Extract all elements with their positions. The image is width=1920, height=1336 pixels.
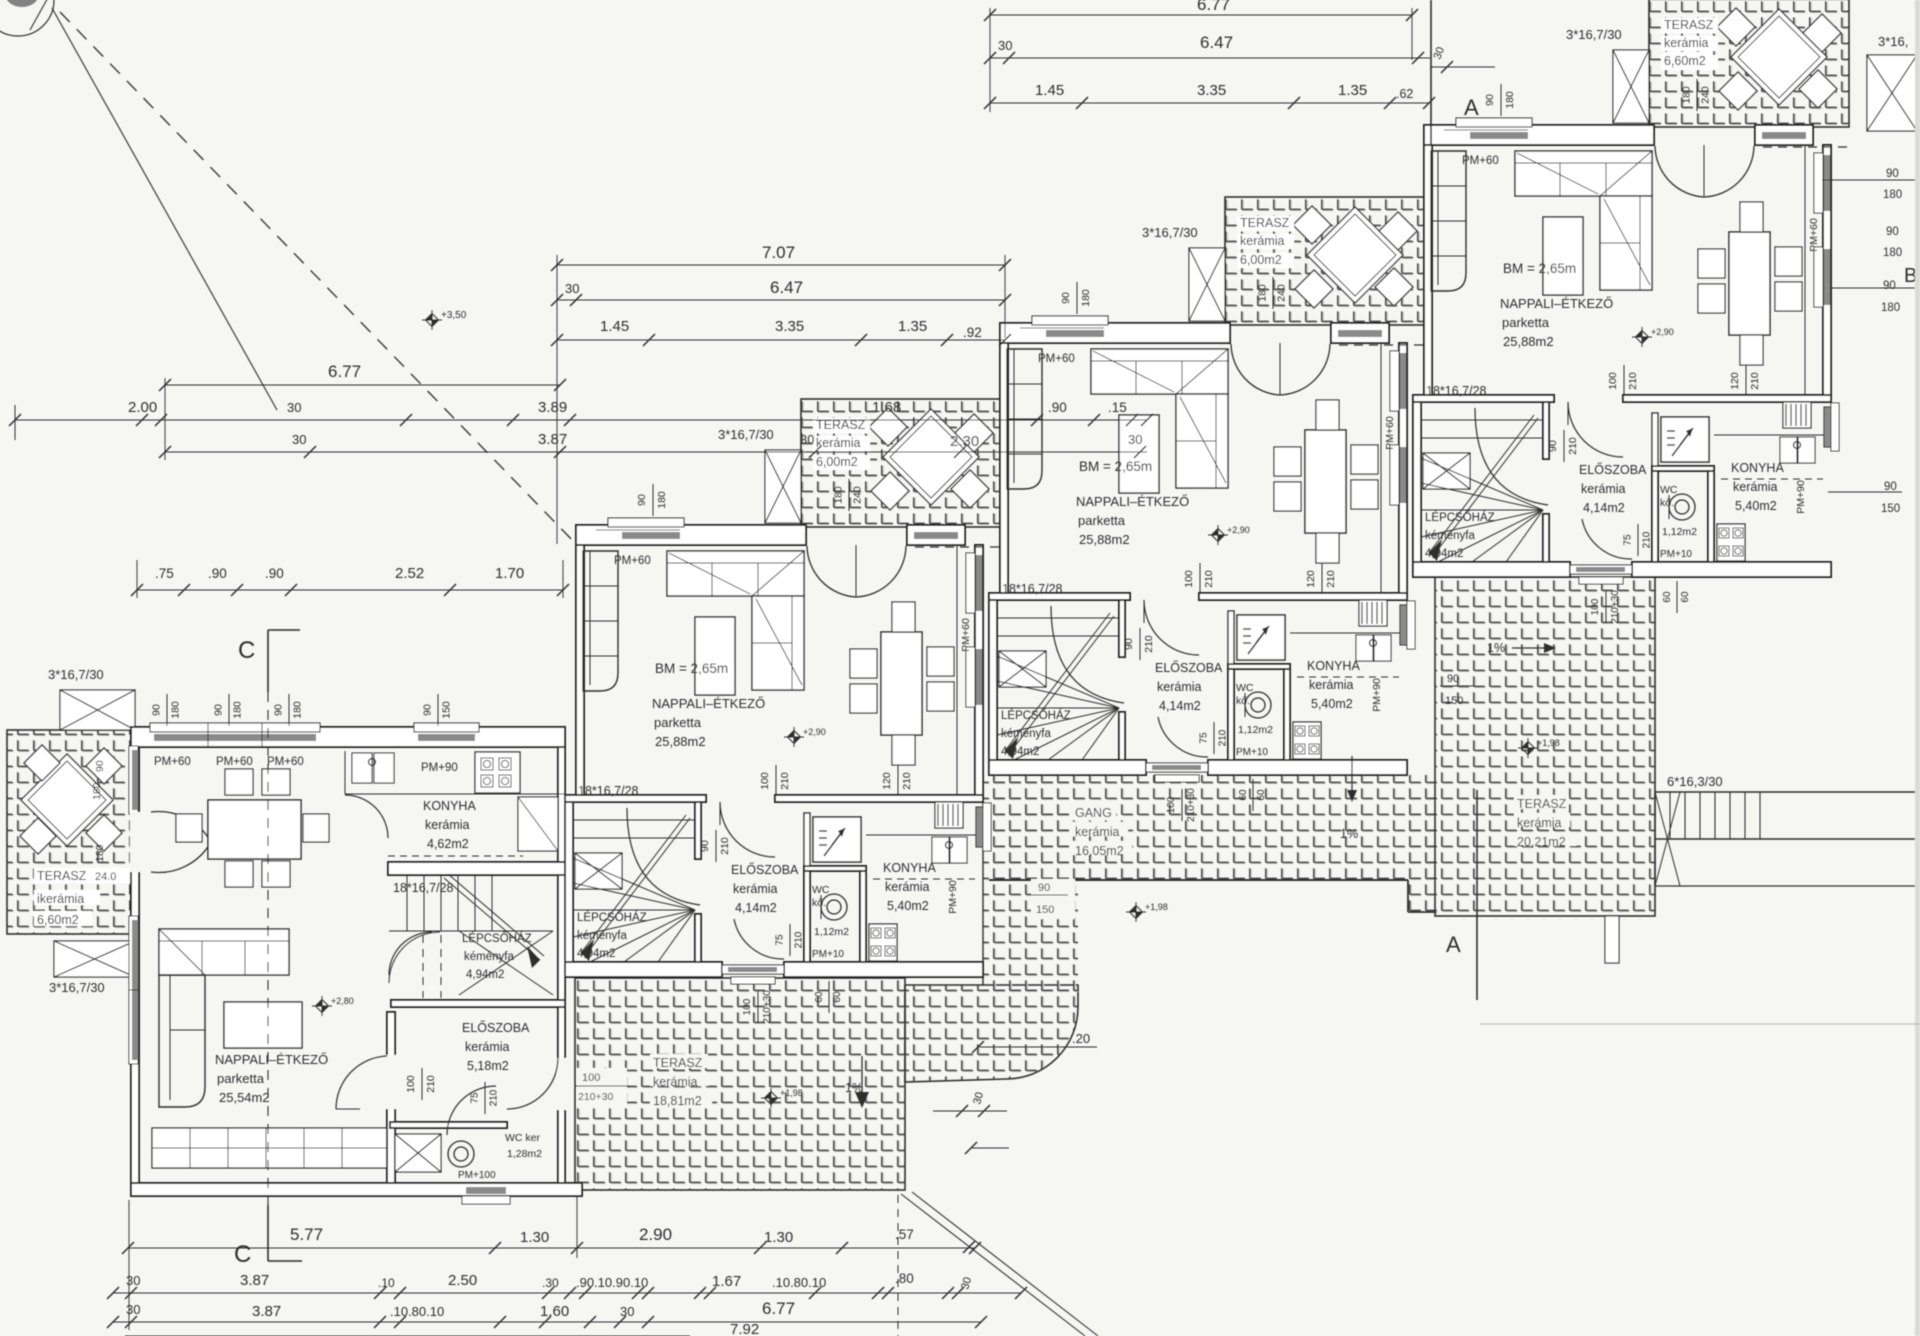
svg-text:3.89: 3.89 [538, 399, 567, 416]
svg-text:90: 90 [1038, 882, 1050, 894]
svg-text:30: 30 [126, 1302, 140, 1317]
svg-text:150: 150 [441, 701, 453, 719]
svg-text:ELŐSZOBA: ELŐSZOBA [462, 1020, 530, 1035]
svg-text:150: 150 [1445, 695, 1463, 707]
svg-text:30: 30 [620, 1304, 634, 1319]
svg-text:.80: .80 [895, 1271, 914, 1286]
svg-text:1.67: 1.67 [712, 1273, 741, 1290]
u1 planter boxes [60, 690, 135, 730]
svg-text:+1,98: +1,98 [780, 1088, 803, 1098]
svg-text:150: 150 [1036, 904, 1054, 916]
svg-text:6.47: 6.47 [1200, 33, 1233, 52]
top-left dim group [557, 264, 1005, 266]
svg-text:1.35: 1.35 [898, 318, 927, 335]
svg-text:3*16,7/30: 3*16,7/30 [48, 667, 104, 682]
svg-text:.62: .62 [1396, 87, 1413, 101]
svg-text:.57: .57 [895, 1227, 914, 1242]
svg-text:TERASZ: TERASZ [1517, 797, 1567, 811]
svg-text:1.35: 1.35 [1338, 82, 1367, 99]
svg-text:1.30: 1.30 [764, 1229, 793, 1246]
svg-text:KONYHA: KONYHA [423, 799, 476, 813]
svg-text:+1,98: +1,98 [1537, 738, 1560, 748]
svg-text:C: C [238, 637, 255, 664]
svg-text:90: 90 [213, 704, 225, 716]
svg-text:75: 75 [470, 1092, 481, 1104]
svg-text:3*16,: 3*16, [1878, 34, 1908, 49]
svg-text:1.45: 1.45 [600, 318, 629, 335]
svg-text:1.70: 1.70 [495, 565, 524, 582]
svg-text:.10.80.10: .10.80.10 [390, 1304, 444, 1319]
svg-text:3.35: 3.35 [1197, 82, 1226, 99]
svg-text:PM+100: PM+100 [458, 1170, 496, 1181]
svg-text:4,94m2: 4,94m2 [466, 969, 504, 981]
svg-text:WC ker: WC ker [505, 1132, 541, 1144]
svg-text:.90: .90 [208, 566, 227, 581]
unit2 terrace labels [650, 1054, 708, 1068]
svg-text:180: 180 [1883, 189, 1902, 201]
svg-text:25,54m2: 25,54m2 [219, 1090, 270, 1105]
survey circle top-left [0, 0, 54, 36]
u1 wc area [390, 1122, 507, 1128]
svg-text:parketta: parketta [217, 1071, 265, 1086]
svg-text:2.30: 2.30 [950, 433, 979, 450]
svg-text:3*16,7/30: 3*16,7/30 [49, 980, 105, 995]
svg-text:180: 180 [91, 782, 103, 800]
svg-text:6*16,3/30: 6*16,3/30 [1667, 774, 1723, 789]
svg-text:+2,80: +2,80 [331, 996, 354, 1006]
svg-text:NAPPALI–ÉTKEZŐ: NAPPALI–ÉTKEZŐ [215, 1052, 328, 1067]
svg-text:.92: .92 [963, 325, 982, 340]
u1 dining [208, 800, 301, 859]
svg-text:5.77: 5.77 [290, 1225, 323, 1244]
u1 partition + eloszoba [387, 1012, 395, 1183]
svg-text:30: 30 [287, 400, 301, 415]
big terrace labels [1514, 795, 1568, 809]
svg-text:3.87: 3.87 [538, 431, 567, 448]
svg-text:kerámia: kerámia [1075, 825, 1120, 839]
svg-text:1.45: 1.45 [1035, 82, 1064, 99]
level +3,50 [426, 314, 439, 327]
svg-text:1%: 1% [1487, 641, 1505, 655]
svg-text:30: 30 [800, 432, 814, 447]
unit4 right planter [1867, 55, 1917, 131]
svg-text:.10.80.10: .10.80.10 [772, 1275, 826, 1290]
svg-text:90: 90 [273, 704, 285, 716]
svg-text:.90: .90 [1048, 400, 1067, 415]
solid sight line [52, 8, 277, 410]
svg-text:kerámia: kerámia [425, 818, 470, 832]
svg-text:180: 180 [1881, 302, 1900, 314]
svg-text:GANG: GANG [1075, 806, 1112, 820]
svg-text:.10: .10 [378, 1276, 395, 1290]
svg-text:30: 30 [292, 432, 306, 447]
svg-text:A: A [1446, 932, 1461, 957]
svg-text:90: 90 [151, 704, 163, 716]
svg-text:20,21m2: 20,21m2 [1517, 835, 1566, 849]
svg-text:180: 180 [1883, 247, 1902, 259]
svg-text:6,60m2: 6,60m2 [1664, 54, 1706, 68]
svg-text:+1,98: +1,98 [1145, 902, 1168, 912]
svg-text:PM+60: PM+60 [216, 756, 253, 768]
u1 sofa [159, 929, 289, 975]
top-right dim group [990, 14, 1412, 16]
svg-text:.90.10.90.10: .90.10.90.10 [576, 1275, 648, 1290]
svg-text:1%: 1% [1340, 827, 1358, 841]
svg-text:90: 90 [1884, 481, 1897, 493]
u1 bottom wall [131, 1183, 582, 1196]
svg-text:7.92: 7.92 [730, 1321, 759, 1336]
svg-text:5,18m2: 5,18m2 [467, 1059, 509, 1073]
u1 top wall [131, 727, 565, 747]
svg-text:+3,50: +3,50 [441, 310, 467, 321]
small post below big terrace [1605, 916, 1619, 963]
svg-text:.90: .90 [265, 566, 284, 581]
svg-text:90: 90 [1886, 226, 1899, 238]
dashed boundary diagonal [60, 12, 576, 544]
svg-text:1,28m2: 1,28m2 [507, 1148, 542, 1160]
svg-text:90: 90 [1886, 168, 1899, 180]
svg-text:1.68: 1.68 [872, 399, 901, 416]
svg-text:TERASZ: TERASZ [37, 869, 87, 883]
left margin ticks [14, 405, 16, 440]
svg-text:210+30: 210+30 [578, 1091, 613, 1103]
u1 door to terrace right [557, 1058, 566, 1110]
gang labels [1072, 804, 1116, 818]
svg-text:18,81m2: 18,81m2 [653, 1094, 702, 1108]
svg-text:kéményfa: kéményfa [464, 951, 514, 963]
u1 bench [152, 1128, 390, 1168]
section A bottom [1476, 790, 1478, 1000]
u1 right wall [558, 747, 565, 1196]
unit 2 [565, 399, 1001, 1024]
bottom dim group [128, 1247, 975, 1249]
svg-text:180: 180 [94, 844, 106, 862]
svg-text:kerámia: kerámia [1517, 816, 1562, 830]
u1 stairs [391, 1000, 565, 1007]
svg-text:30: 30 [1128, 432, 1142, 447]
svg-text:90: 90 [1883, 280, 1896, 292]
svg-text:.75: .75 [155, 566, 174, 581]
external stair 6*16,3/30 [1655, 791, 1920, 793]
svg-text:.20: .20 [1072, 1031, 1090, 1046]
svg-text:3.35: 3.35 [775, 318, 804, 335]
svg-text:C: C [234, 1241, 251, 1268]
svg-text:30: 30 [565, 281, 579, 296]
paved terrace/gang hatch areas [7, 730, 136, 934]
unit 3 [989, 197, 1425, 822]
svg-text:6,60m2: 6,60m2 [37, 913, 79, 927]
svg-text:90: 90 [94, 760, 106, 772]
svg-text:2.50: 2.50 [448, 1272, 477, 1289]
right edge scan shadow [1915, 0, 1920, 1336]
svg-text:100: 100 [582, 1072, 600, 1084]
svg-text:4,62m2: 4,62m2 [427, 837, 469, 851]
svg-text:LÉPCSŐHÁZ: LÉPCSŐHÁZ [462, 931, 532, 945]
svg-text:1.60: 1.60 [540, 1303, 569, 1320]
svg-text:.15: .15 [1108, 400, 1127, 415]
svg-text:TERASZ: TERASZ [653, 1056, 703, 1070]
svg-text:3.87: 3.87 [252, 1303, 281, 1320]
u1 kitchen [345, 793, 565, 795]
svg-text:PM+60: PM+60 [154, 756, 191, 768]
svg-text:.30: .30 [542, 1276, 559, 1290]
svg-text:6.47: 6.47 [770, 278, 803, 297]
svg-text:180: 180 [292, 701, 304, 719]
svg-text:2.52: 2.52 [395, 565, 424, 582]
svg-text:7.07: 7.07 [762, 243, 795, 262]
svg-text:24.0: 24.0 [95, 871, 116, 883]
u1 left wall [131, 747, 139, 1196]
svg-text:2.90: 2.90 [639, 1225, 672, 1244]
svg-text:1.30: 1.30 [520, 1229, 549, 1246]
u1 terrace table [21, 754, 113, 846]
svg-text:18*16,7/28: 18*16,7/28 [393, 881, 454, 895]
svg-text:PM+90: PM+90 [421, 762, 458, 774]
svg-text:kerámia: kerámia [653, 1075, 698, 1089]
svg-text:210: 210 [425, 1075, 437, 1093]
svg-text:90: 90 [422, 704, 434, 716]
svg-text:180: 180 [170, 701, 182, 719]
dim extension guide lines [556, 255, 558, 544]
svg-text:6.77: 6.77 [328, 362, 361, 381]
section A top [1430, 0, 1432, 144]
svg-text:2.00: 2.00 [128, 399, 157, 416]
unit 4 [1413, 0, 1849, 624]
svg-text:16,05m2: 16,05m2 [1075, 844, 1124, 858]
svg-text:180: 180 [232, 701, 244, 719]
svg-text:A: A [1464, 95, 1479, 120]
boundary diagonals bottom right [901, 1194, 1085, 1336]
svg-text:30: 30 [126, 1273, 140, 1288]
svg-text:3.87: 3.87 [240, 1272, 269, 1289]
unit4 terrace label correction [1663, 52, 1713, 67]
svg-text:PM+60: PM+60 [267, 756, 304, 768]
svg-text:kerámia: kerámia [465, 1040, 510, 1054]
svg-text:150: 150 [1881, 503, 1900, 515]
svg-text:210: 210 [489, 1089, 500, 1106]
svg-text:30: 30 [998, 38, 1012, 53]
svg-text:90: 90 [1447, 673, 1459, 685]
svg-text:6.77: 6.77 [1197, 0, 1230, 14]
svg-text:100: 100 [405, 1075, 417, 1093]
u1 kitchen front wall [388, 862, 565, 875]
svg-text:6.77: 6.77 [762, 1299, 795, 1318]
svg-text:ikerámia: ikerámia [37, 892, 84, 906]
u1 coffee table [224, 1002, 302, 1048]
